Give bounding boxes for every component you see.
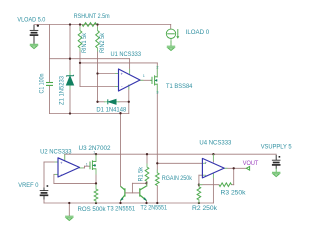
svg-text:VREF 0: VREF 0 [18,183,39,189]
svg-text:T2 2N5551: T2 2N5551 [141,206,168,212]
svg-text:U4 NCS333: U4 NCS333 [199,141,232,147]
svg-text:Z1 1N5233: Z1 1N5233 [60,75,66,105]
svg-text:1: 1 [143,74,145,78]
svg-text:VSUPPLY 5: VSUPPLY 5 [261,145,293,151]
svg-text:RIN2 5k: RIN2 5k [100,32,106,53]
svg-text:D1 1N4148: D1 1N4148 [96,108,127,114]
svg-text:VLOAD 5.0: VLOAD 5.0 [17,17,46,23]
svg-text:C1 100n: C1 100n [40,74,46,94]
svg-text:T1 BSS84: T1 BSS84 [166,84,193,90]
svg-text:RGAIN 250k: RGAIN 250k [162,176,193,182]
svg-text:T3 2N5551: T3 2N5551 [107,207,136,213]
svg-text:1: 1 [93,151,95,155]
svg-text:ROS 500k: ROS 500k [78,207,107,213]
svg-text:RIN1 5k: RIN1 5k [82,32,88,53]
svg-text:U2 NCS333: U2 NCS333 [40,149,72,155]
svg-text:R2 250k: R2 250k [192,206,218,212]
svg-text:ILOAD 0: ILOAD 0 [186,30,210,36]
svg-text:2: 2 [156,66,158,70]
svg-text:U1 NCS333: U1 NCS333 [111,52,142,58]
svg-text:3: 3 [156,91,158,95]
svg-text:1: 1 [86,162,88,166]
svg-text:R3 250k: R3 250k [221,191,247,197]
svg-text:VOUT: VOUT [243,161,259,167]
svg-text:RSHUNT 2.5m: RSHUNT 2.5m [74,14,110,20]
svg-text:R1 5k: R1 5k [139,166,145,181]
